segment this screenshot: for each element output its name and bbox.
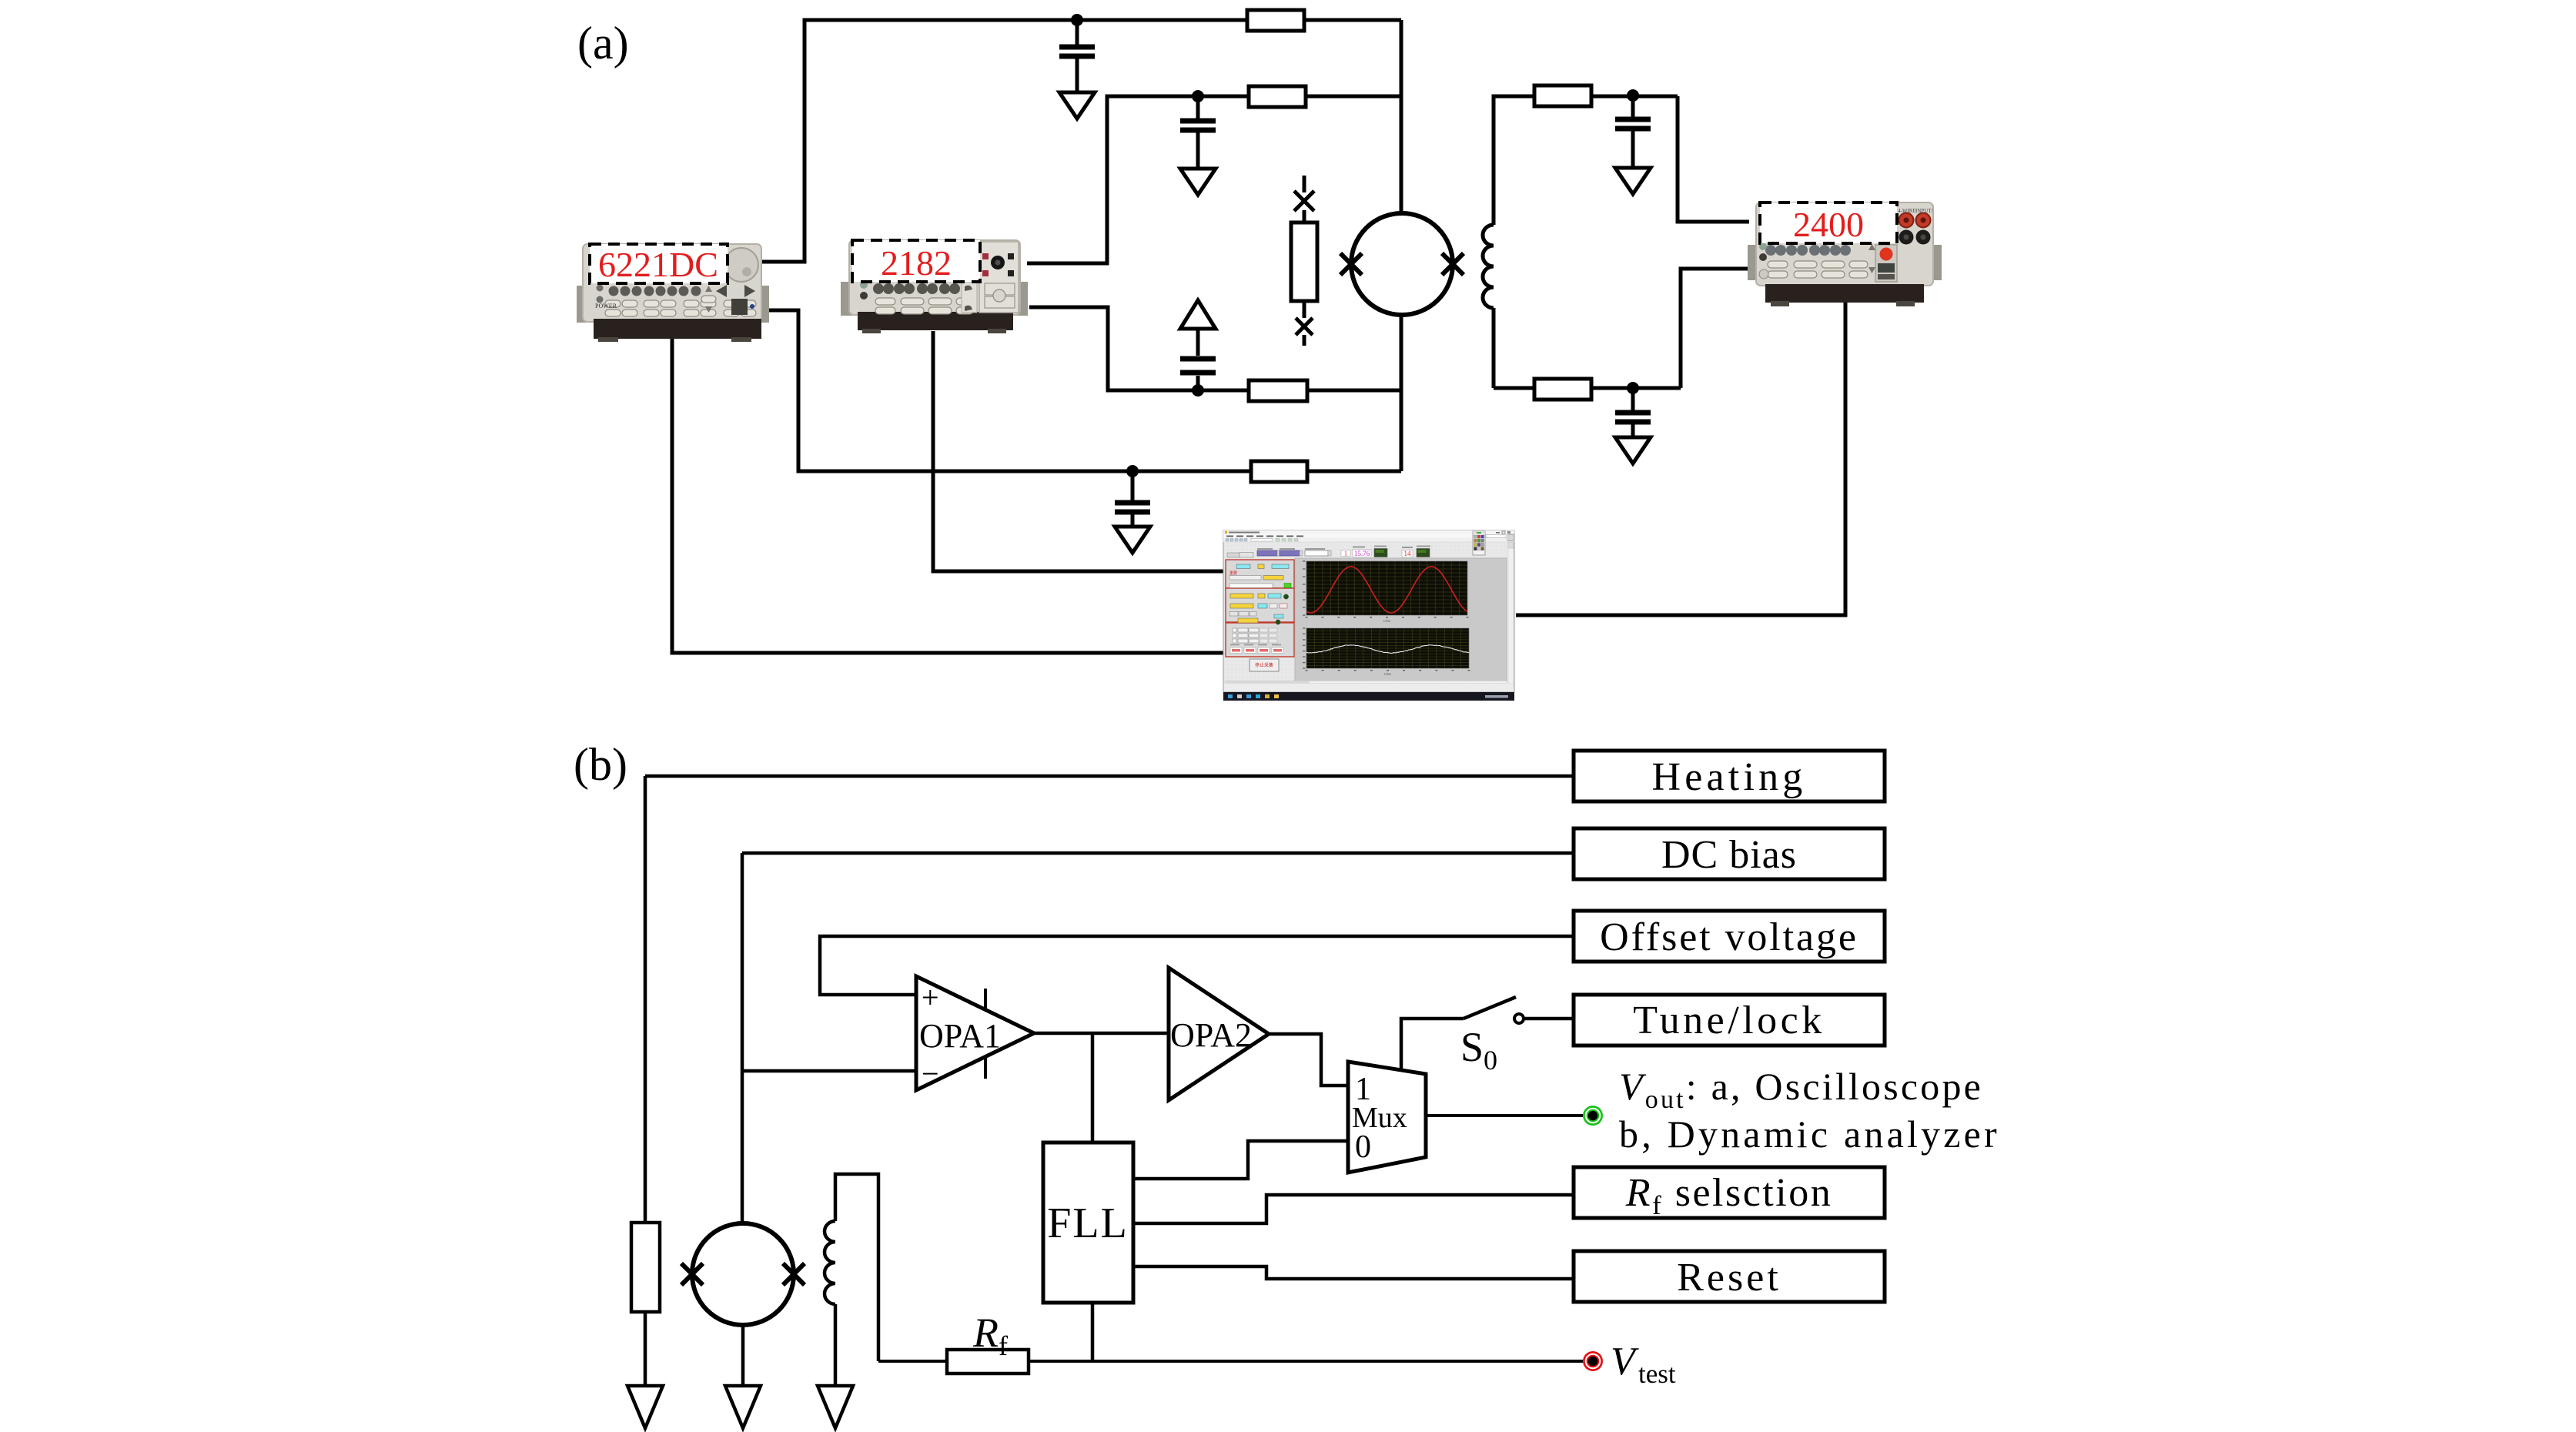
svg-text:DC bias: DC bias <box>1661 833 1797 877</box>
svg-text:6221DC: 6221DC <box>598 245 718 284</box>
svg-text:V: V <box>1611 1340 1639 1383</box>
svg-text:停止采集: 停止采集 <box>1255 662 1273 668</box>
svg-text:OPA1: OPA1 <box>919 1017 1001 1055</box>
svg-text:重要: 重要 <box>1229 570 1237 576</box>
svg-text:test: test <box>1638 1359 1676 1389</box>
svg-text:0: 0 <box>1355 1129 1371 1165</box>
svg-text:14: 14 <box>1404 550 1412 557</box>
svg-text:OPA2: OPA2 <box>1170 1016 1252 1054</box>
svg-text:Tune/lock: Tune/lock <box>1633 999 1825 1042</box>
svg-text:(b): (b) <box>574 739 627 790</box>
svg-text:Heating: Heating <box>1651 755 1806 799</box>
svg-text:INPUT/: INPUT/ <box>1915 208 1933 214</box>
svg-text:15.76: 15.76 <box>1354 550 1370 557</box>
svg-text:2182: 2182 <box>881 243 952 283</box>
svg-text:+: + <box>922 980 939 1015</box>
svg-text:b, Dynamic analyzer: b, Dynamic analyzer <box>1619 1112 2000 1156</box>
svg-text:Reset: Reset <box>1677 1256 1781 1300</box>
svg-text:t/ms: t/ms <box>1384 673 1391 677</box>
svg-text:2400: 2400 <box>1793 205 1864 244</box>
svg-text:t/ms: t/ms <box>1383 620 1390 624</box>
svg-text:−: − <box>922 1056 939 1091</box>
svg-text:1: 1 <box>1344 550 1347 557</box>
svg-text:Offset voltage: Offset voltage <box>1600 915 1858 959</box>
svg-text:FLL: FLL <box>1047 1199 1129 1247</box>
svg-text:4-WIRE: 4-WIRE <box>1898 208 1916 214</box>
svg-text:POWER: POWER <box>595 303 617 309</box>
svg-text:(a): (a) <box>577 18 629 69</box>
